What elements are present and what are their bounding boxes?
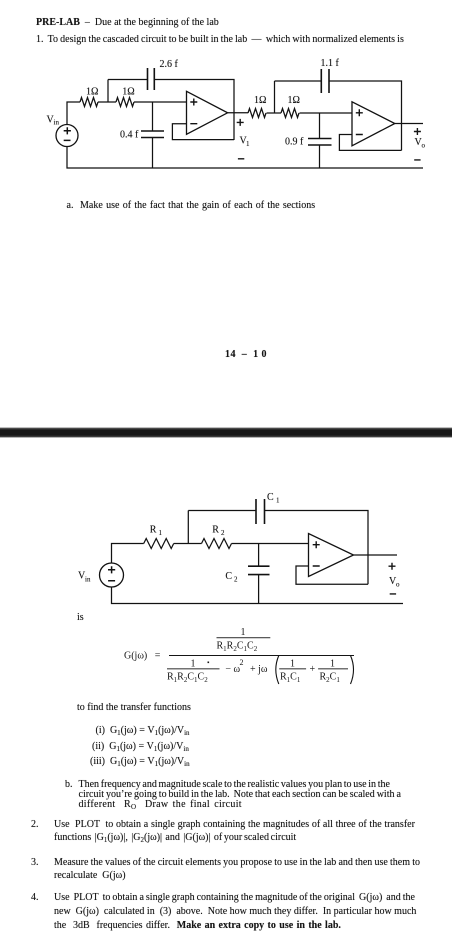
svg-text:in: in xyxy=(85,576,91,584)
svg-text:1Ω: 1Ω xyxy=(122,87,134,98)
svg-text:+: + xyxy=(310,664,316,675)
svg-text:1: 1 xyxy=(241,627,246,638)
svg-text:2: 2 xyxy=(234,576,238,584)
svg-text:G(jω) =: G(jω) = xyxy=(124,651,161,662)
svg-text:R1R2C1C2: R1R2C1C2 xyxy=(167,672,208,684)
svg-text:in: in xyxy=(54,119,60,127)
svg-text:R1C1: R1C1 xyxy=(280,672,301,684)
svg-text:1: 1 xyxy=(276,497,280,505)
svg-text:2: 2 xyxy=(221,529,225,537)
svg-text:1.1 f: 1.1 f xyxy=(321,58,340,69)
svg-text:C: C xyxy=(225,571,232,582)
svg-text:1Ω: 1Ω xyxy=(86,87,98,98)
svg-text:1Ω: 1Ω xyxy=(254,95,266,106)
svg-text:R: R xyxy=(212,525,219,536)
svg-text:1: 1 xyxy=(290,659,295,670)
svg-text:R: R xyxy=(150,525,157,536)
svg-text:o: o xyxy=(396,581,400,589)
svg-text:− ω: − ω xyxy=(225,664,240,675)
svg-text:1: 1 xyxy=(246,140,250,148)
svg-text:0.4 f: 0.4 f xyxy=(120,130,139,141)
svg-text:2.6 f: 2.6 f xyxy=(160,59,179,70)
svg-text:1: 1 xyxy=(159,529,163,537)
svg-text:R1R2C1C2: R1R2C1C2 xyxy=(217,641,258,653)
svg-text:C: C xyxy=(267,492,274,503)
svg-text:R2C1: R2C1 xyxy=(320,672,341,684)
svg-text:o: o xyxy=(422,142,426,150)
svg-text:1: 1 xyxy=(191,659,196,670)
svg-text:1: 1 xyxy=(330,659,335,670)
svg-text:1Ω: 1Ω xyxy=(288,95,300,106)
svg-text:2: 2 xyxy=(240,658,244,667)
svg-text:+ jω: + jω xyxy=(250,664,268,675)
svg-text:0.9 f: 0.9 f xyxy=(285,137,304,148)
